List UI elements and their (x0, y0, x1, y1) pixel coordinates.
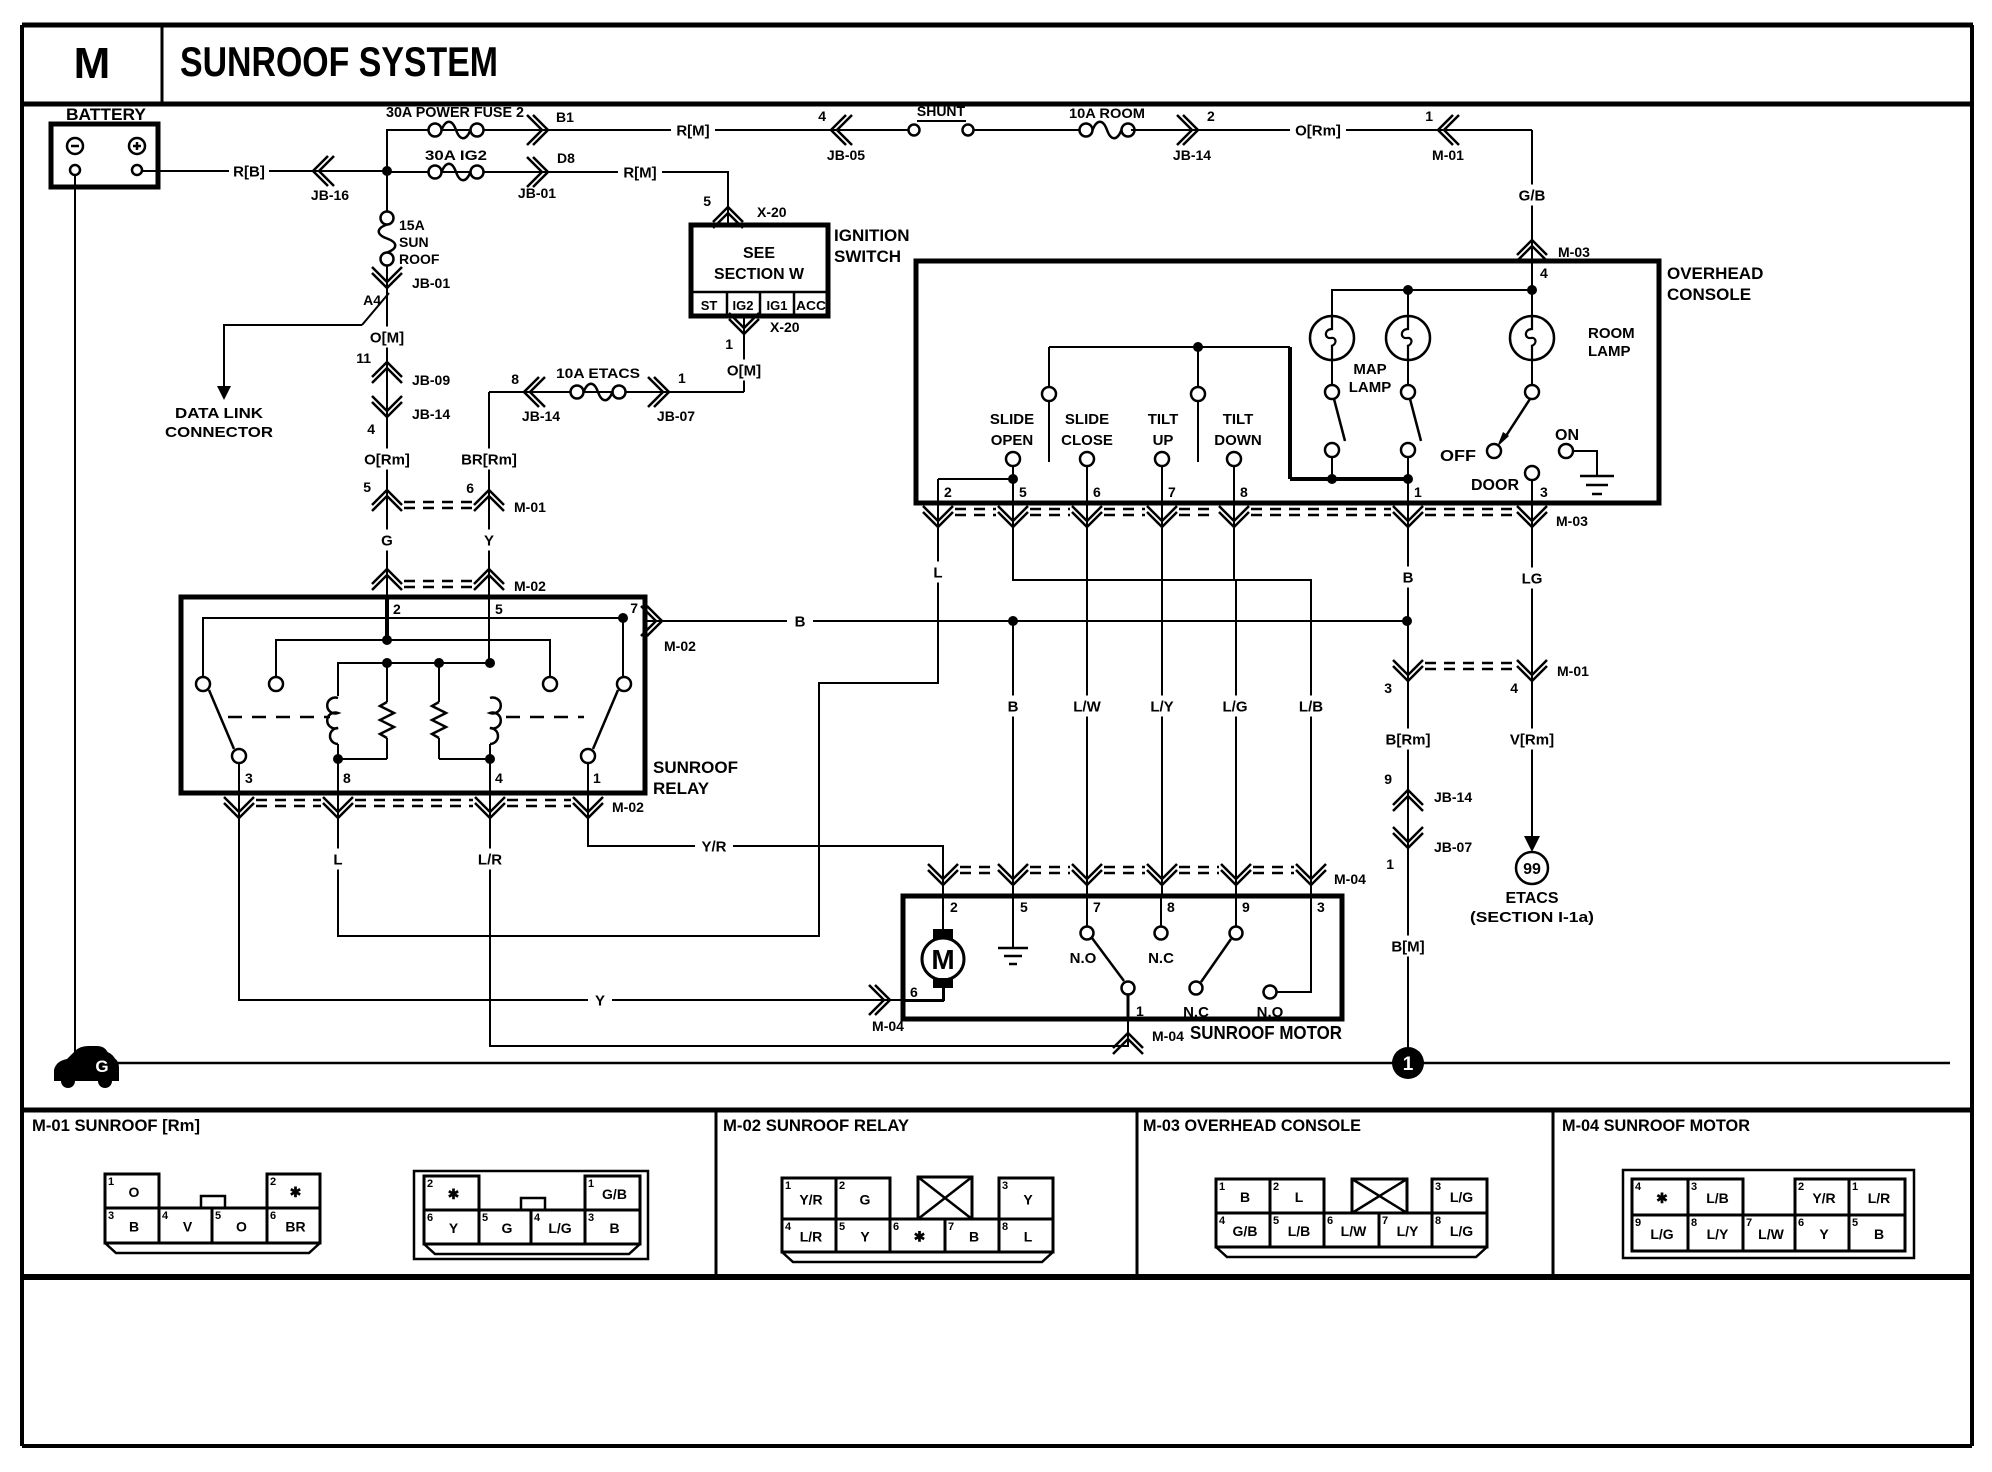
console pin2 jog junction (1008, 474, 1018, 484)
svg-text:JB-07: JB-07 (1434, 839, 1472, 855)
console contact tilt up (1155, 452, 1169, 466)
console switch bus junction (1193, 342, 1203, 352)
svg-text:5: 5 (1273, 1215, 1279, 1227)
svg-text:7: 7 (1382, 1215, 1388, 1227)
fuse 10A ROOM (1080, 124, 1093, 137)
svg-text:SWITCH: SWITCH (834, 247, 901, 266)
label L/Y (1144, 696, 1180, 717)
console lower bus junction a (1327, 474, 1337, 484)
svg-text:1: 1 (678, 370, 686, 386)
svg-text:TILT: TILT (1148, 411, 1179, 428)
ignition switch box (691, 225, 828, 316)
console pin3 stem (1531, 480, 1533, 503)
connector M-04 column x1087 (1072, 864, 1102, 885)
relay coil bus junction b (434, 658, 444, 668)
svg-text:✱: ✱ (1656, 1190, 1668, 1206)
svg-text:JB-14: JB-14 (412, 406, 450, 422)
svg-text:Y: Y (860, 1229, 870, 1245)
wire Y relay pin3 to motor pin6 (239, 793, 944, 1000)
svg-text:2: 2 (1207, 108, 1215, 124)
label LG (1517, 568, 1547, 589)
connector X-20 lower (729, 313, 759, 334)
svg-text:4: 4 (1635, 1181, 1642, 1193)
console contact tilt down (1227, 452, 1241, 466)
svg-text:L/W: L/W (1341, 1223, 1367, 1239)
svg-text:DATA LINK: DATA LINK (175, 405, 263, 422)
svg-text:1: 1 (725, 336, 733, 352)
connector M-03 column x1162 (1147, 506, 1177, 527)
svg-text:6: 6 (910, 984, 918, 1000)
connector M-04 column x1162 (1147, 864, 1177, 885)
svg-text:V[Rm]: V[Rm] (1510, 731, 1554, 748)
svg-text:3: 3 (1384, 680, 1392, 696)
svg-text:M-02: M-02 (612, 799, 644, 815)
svg-text:7: 7 (1093, 899, 1101, 915)
svg-text:5: 5 (363, 479, 371, 495)
svg-text:30A IG2: 30A IG2 (425, 147, 487, 163)
svg-text:JB-01: JB-01 (518, 185, 556, 201)
svg-text:2: 2 (393, 601, 401, 617)
fuse 10A ETACS (571, 386, 584, 399)
connector M-01 pin3 lower (1393, 660, 1423, 681)
connector M-03 column x938 (923, 506, 953, 527)
console contact slide close (1080, 452, 1094, 466)
svg-text:IG2: IG2 (733, 298, 754, 313)
wire Y to relay (488, 485, 490, 597)
connector M-03 top (1517, 240, 1547, 261)
relay coil bottom bus right (489, 744, 491, 759)
battery positive symbol (129, 138, 145, 154)
svg-text:RELAY: RELAY (653, 779, 710, 798)
room lamp ON contact (1559, 444, 1573, 458)
console bus down thick (1288, 347, 1292, 479)
svg-text:1: 1 (1425, 108, 1433, 124)
motor switch blade 7-1 (1092, 938, 1124, 981)
label O[M] ignition (722, 360, 766, 381)
svg-text:4: 4 (1510, 680, 1518, 696)
svg-text:G/B: G/B (602, 1186, 627, 1202)
connector M-03 column x1013 (998, 506, 1028, 527)
label R[M] top (671, 120, 715, 141)
svg-text:B: B (1008, 698, 1019, 715)
label Y net (588, 990, 612, 1011)
connector JB-14 etacs (524, 377, 545, 407)
wire power fuse 2 line (387, 129, 909, 131)
console switch common 1 (1048, 347, 1050, 387)
svg-text:3: 3 (1540, 484, 1548, 500)
svg-text:CONNECTOR: CONNECTOR (165, 424, 273, 441)
svg-text:N.C: N.C (1183, 1004, 1209, 1021)
wire G to relay (386, 485, 388, 597)
svg-text:B: B (1240, 1189, 1250, 1205)
label G (375, 530, 399, 551)
svg-text:4: 4 (162, 1210, 169, 1222)
svg-text:IGNITION: IGNITION (834, 226, 910, 245)
relay coil bus junction a (382, 658, 392, 668)
svg-text:3: 3 (1435, 1181, 1441, 1193)
svg-text:ACC: ACC (796, 298, 827, 313)
svg-text:B[M]: B[M] (1391, 938, 1424, 955)
svg-text:5: 5 (703, 193, 711, 209)
console room lamp stem (1531, 261, 1533, 316)
connector JB-01 A4 (372, 267, 402, 288)
svg-text:6: 6 (893, 1221, 899, 1233)
svg-text:4: 4 (818, 108, 826, 124)
wire L relay pin8 to console pin2 (338, 503, 938, 936)
svg-text:8: 8 (1167, 899, 1175, 915)
svg-text:L/Y: L/Y (1707, 1226, 1729, 1242)
label B net (787, 611, 813, 632)
shunt connector (909, 125, 920, 136)
battery negative symbol (67, 138, 83, 154)
svg-text:6: 6 (270, 1210, 276, 1222)
svg-text:SECTION W: SECTION W (714, 266, 805, 283)
svg-text:R[M]: R[M] (623, 164, 656, 181)
header section-letter cell divider (161, 25, 164, 104)
label L/B (1293, 696, 1329, 717)
connector JB-07 etacs (648, 377, 669, 407)
wire B console pin1 down to ETACS junction (1407, 503, 1409, 1063)
connector M-01 pin6 (474, 490, 504, 511)
ON contact ground wire (1573, 451, 1597, 475)
svg-text:ETACS: ETACS (1505, 890, 1558, 907)
wire L/B console pin5 to motor pin3 (1013, 503, 1311, 896)
svg-text:2: 2 (427, 1178, 433, 1190)
connector M-04 column x1236 (1221, 864, 1251, 885)
svg-text:D8: D8 (557, 150, 575, 166)
M-04 connector view (1623, 1170, 1914, 1258)
svg-text:5: 5 (1852, 1217, 1858, 1229)
label V[Rm] (1506, 729, 1558, 750)
wire room fuse to console corner (1131, 129, 1532, 131)
svg-text:5: 5 (215, 1210, 221, 1222)
wire shunt to room fuse (973, 129, 1083, 131)
label O[Rm] top (1290, 120, 1346, 141)
wire bottom ground B[M] line (117, 1062, 1950, 1065)
svg-text:4: 4 (1219, 1215, 1226, 1227)
svg-text:5: 5 (495, 601, 503, 617)
svg-text:L/G: L/G (1650, 1226, 1673, 1242)
connector M-03 column x1532 (1517, 506, 1547, 527)
svg-text:CLOSE: CLOSE (1061, 432, 1113, 449)
relay coil bottom junction left (333, 754, 343, 764)
relay switch contact 7a (196, 677, 210, 691)
sunroof relay box (181, 597, 645, 793)
console lower bus thick (1290, 477, 1408, 481)
wire junction up to power fuse line (386, 129, 388, 213)
svg-text:R[B]: R[B] (233, 163, 265, 180)
label R[M] ignition (618, 162, 662, 183)
console pin2 jog (938, 478, 1013, 480)
relay coil bottom junction right (485, 754, 495, 764)
connector JB-14 column (372, 396, 402, 417)
label R[B] (229, 161, 269, 182)
svg-text:N.C: N.C (1148, 950, 1174, 967)
svg-text:6: 6 (1093, 484, 1101, 500)
svg-text:G: G (381, 532, 393, 549)
svg-text:✱: ✱ (290, 1184, 302, 1200)
svg-text:4: 4 (495, 770, 503, 786)
svg-text:30A POWER FUSE 2: 30A POWER FUSE 2 (386, 104, 524, 121)
connector JB-16 (313, 156, 334, 186)
strip divider 1 (715, 1110, 718, 1277)
svg-text:M-02: M-02 (514, 578, 546, 594)
svg-text:JB-07: JB-07 (657, 408, 695, 424)
svg-text:5: 5 (1019, 484, 1027, 500)
connector M-01 pin4 lower (1517, 660, 1547, 681)
svg-text:O[Rm]: O[Rm] (1295, 122, 1341, 139)
svg-text:9: 9 (1635, 1217, 1641, 1229)
relay pin1 wire (587, 763, 589, 793)
M-02 row dashes b (355, 799, 473, 802)
svg-text:M-01: M-01 (514, 499, 546, 515)
svg-text:SEE: SEE (743, 245, 775, 262)
label B motor (1000, 696, 1026, 717)
svg-text:1: 1 (1414, 484, 1422, 500)
svg-text:8: 8 (1435, 1215, 1441, 1227)
svg-text:Y: Y (449, 1220, 459, 1236)
relay switch contact 7b (617, 677, 631, 691)
label Y/R (695, 836, 733, 857)
console lamp2 stem (1407, 290, 1409, 316)
svg-text:M-01: M-01 (1432, 147, 1464, 163)
connector JB-07 right (1393, 827, 1423, 848)
svg-text:M: M (931, 944, 954, 975)
svg-text:SUNROOF SYSTEM: SUNROOF SYSTEM (180, 38, 498, 85)
wire 30A IG2 line to ignition switch (387, 172, 728, 225)
relay switch blade left (209, 690, 234, 749)
svg-text:6: 6 (427, 1212, 433, 1224)
svg-text:JB-05: JB-05 (827, 147, 865, 163)
svg-text:L/Y: L/Y (1397, 1223, 1419, 1239)
label B[Rm] (1381, 729, 1435, 750)
svg-text:1: 1 (1136, 1003, 1144, 1019)
overhead console box (916, 261, 1659, 503)
connector M-02 pin1 (573, 797, 603, 818)
svg-text:B: B (1403, 569, 1414, 586)
relay resistor 2 (438, 663, 440, 702)
motor switch pin7 contact (1086, 896, 1088, 926)
M-01 connector view A (105, 1174, 320, 1253)
svg-text:M-02: M-02 (664, 638, 696, 654)
svg-text:ROOM: ROOM (1588, 325, 1635, 342)
relay pin8 wire (337, 759, 339, 793)
label L/R (472, 849, 508, 870)
svg-text:1: 1 (108, 1176, 114, 1188)
svg-text:Y/R: Y/R (701, 838, 726, 855)
svg-text:8: 8 (343, 770, 351, 786)
svg-text:B[Rm]: B[Rm] (1386, 731, 1431, 748)
M-04 row dashes (960, 866, 996, 869)
connector M-04 column x1013 (998, 864, 1028, 885)
motor switch pin8 contact (1160, 896, 1162, 926)
svg-text:M-03 OVERHEAD CONSOLE: M-03 OVERHEAD CONSOLE (1143, 1116, 1361, 1135)
svg-text:L/G: L/G (1450, 1223, 1473, 1239)
svg-text:L/G: L/G (1450, 1189, 1473, 1205)
svg-text:8: 8 (1002, 1221, 1008, 1233)
svg-text:3: 3 (1002, 1180, 1008, 1192)
svg-text:G: G (502, 1220, 513, 1236)
M-03 row dashes (955, 508, 996, 511)
relay pin7 junction (618, 613, 628, 623)
svg-text:3: 3 (1317, 899, 1325, 915)
map lamp2 switch (1407, 360, 1409, 385)
svg-text:7: 7 (630, 600, 638, 616)
svg-text:2: 2 (944, 484, 952, 500)
strip divider 2 (1136, 1110, 1139, 1277)
label O[Rm] column (360, 449, 414, 470)
wire data link connector branch (224, 325, 362, 388)
M-01 connector view B (414, 1171, 648, 1259)
svg-text:4: 4 (534, 1212, 541, 1224)
relay pin3 wire (238, 763, 240, 793)
console lower bus junction b (1403, 474, 1413, 484)
svg-text:Y/R: Y/R (799, 1192, 822, 1208)
svg-text:L/Y: L/Y (1150, 698, 1173, 715)
motor NC contact lower (1190, 982, 1203, 995)
svg-text:X-20: X-20 (770, 319, 800, 335)
fuse 30A IG2 (429, 166, 442, 179)
connector M-01 pin5 (372, 490, 402, 511)
connector M-04 pin6 inline (869, 985, 890, 1015)
svg-text:Y: Y (595, 992, 605, 1009)
svg-text:10A ETACS: 10A ETACS (556, 365, 640, 381)
svg-text:O[Rm]: O[Rm] (364, 451, 410, 468)
wire L/G console pin8 to motor pin9 (1234, 503, 1236, 896)
label L console side (927, 562, 949, 583)
wire battery negative to ground car symbol (74, 175, 76, 1056)
battery B1 box (51, 124, 158, 187)
svg-text:2: 2 (839, 1180, 845, 1192)
connector M-02 pin3 (224, 797, 254, 818)
svg-text:L: L (1024, 1229, 1033, 1245)
map lamp 1 (1310, 316, 1354, 360)
svg-text:3: 3 (245, 770, 253, 786)
console contact slide open (1006, 452, 1020, 466)
relay pin2 feed wire (385, 597, 389, 640)
connector M-03 column x1408 (1393, 506, 1423, 527)
sunroof motor box (903, 896, 1342, 1019)
relay pin7 stem to contact (622, 618, 624, 677)
svg-text:8: 8 (1691, 1217, 1697, 1229)
svg-text:L/B: L/B (1706, 1190, 1729, 1206)
svg-text:SHUNT: SHUNT (917, 103, 966, 119)
svg-text:B: B (1874, 1226, 1884, 1242)
svg-text:3: 3 (588, 1212, 594, 1224)
room lamp switch (1531, 360, 1533, 385)
svg-text:JB-01: JB-01 (412, 275, 450, 291)
wire L/Y console pin7 to motor pin8 (1161, 503, 1163, 896)
svg-text:BR[Rm]: BR[Rm] (461, 451, 517, 468)
svg-text:OFF: OFF (1440, 448, 1476, 465)
connector JB-09 (372, 362, 402, 383)
svg-text:Y: Y (1819, 1226, 1829, 1242)
svg-text:8: 8 (511, 371, 519, 387)
svg-text:B: B (795, 613, 806, 630)
svg-text:B: B (609, 1220, 619, 1236)
connector JB-05 (831, 115, 852, 145)
arrow to data link connector (217, 386, 231, 400)
svg-text:L/W: L/W (1758, 1226, 1784, 1242)
M-02 row dashes a (256, 799, 321, 802)
relay mechanical link dashes (228, 716, 330, 719)
svg-text:N.O: N.O (1070, 950, 1097, 967)
svg-text:L: L (1295, 1189, 1304, 1205)
svg-text:SLIDE: SLIDE (1065, 411, 1109, 428)
connector JB-14 top (1177, 115, 1198, 145)
room lamp DOOR contact (1525, 466, 1539, 480)
wire B net horizontal (645, 620, 1407, 622)
connector M-01 inline top (1438, 115, 1459, 145)
svg-text:L/W: L/W (1073, 698, 1101, 715)
M-03 connector view (1216, 1179, 1487, 1257)
relay coil bus (338, 663, 490, 696)
svg-text:IG1: IG1 (767, 298, 788, 313)
console switch common 2 (1197, 347, 1199, 387)
svg-text:G/B: G/B (1233, 1223, 1258, 1239)
svg-text:7: 7 (1746, 1217, 1752, 1229)
wire fuse to JB-01 (386, 266, 388, 291)
svg-text:7: 7 (948, 1221, 954, 1233)
svg-text:UP: UP (1153, 432, 1174, 449)
svg-text:6: 6 (466, 480, 474, 496)
svg-text:5: 5 (482, 1212, 488, 1224)
svg-text:ROOF: ROOF (399, 251, 440, 267)
svg-text:3: 3 (1691, 1181, 1697, 1193)
svg-text:L/G: L/G (548, 1220, 571, 1236)
connector M-04 column x1311 (1296, 864, 1326, 885)
wire R[B] battery positive to junction (142, 170, 387, 172)
svg-text:TILT: TILT (1223, 411, 1254, 428)
motor M1 armature (942, 896, 944, 929)
svg-text:M-03: M-03 (1558, 244, 1590, 260)
label L relay side (327, 849, 349, 870)
svg-text:JB-14: JB-14 (522, 408, 560, 424)
svg-text:1: 1 (1852, 1181, 1858, 1193)
connector JB-14 right (1393, 790, 1423, 811)
svg-text:L/G: L/G (1223, 698, 1248, 715)
svg-text:Y: Y (484, 532, 494, 549)
wire ignition output O[M] (743, 316, 745, 392)
svg-text:1: 1 (1386, 856, 1394, 872)
svg-text:99: 99 (1523, 861, 1541, 878)
strip divider 3 (1552, 1110, 1555, 1277)
svg-text:15A: 15A (399, 217, 425, 233)
connector M-02 pin5 (474, 569, 504, 590)
svg-text:8: 8 (1240, 484, 1248, 500)
relay coil bus junction c (485, 658, 495, 668)
svg-text:JB-14: JB-14 (1173, 147, 1211, 163)
wire L/R relay pin4 to motor pin1 (490, 793, 1128, 1046)
relay coil 1 (327, 698, 338, 745)
svg-text:9: 9 (1242, 899, 1250, 915)
connector X-20 upper (713, 207, 743, 228)
label B[M] (1386, 936, 1430, 957)
svg-text:M-04 SUNROOF MOTOR: M-04 SUNROOF MOTOR (1562, 1116, 1750, 1135)
svg-text:L/R: L/R (1868, 1190, 1891, 1206)
connector B1 (527, 115, 548, 145)
svg-text:G/B: G/B (1519, 187, 1546, 204)
junction node 1 circle (1392, 1047, 1424, 1079)
map lamp 2 (1386, 316, 1430, 360)
svg-text:O: O (236, 1219, 247, 1235)
console switch bus (1049, 346, 1290, 348)
svg-text:✱: ✱ (448, 1186, 460, 1202)
console lamp bus junction a (1403, 285, 1413, 295)
connector M-02 pin8 (323, 797, 353, 818)
console pin5 inner stem (1012, 479, 1014, 503)
motor pin6 wire (903, 988, 943, 1001)
